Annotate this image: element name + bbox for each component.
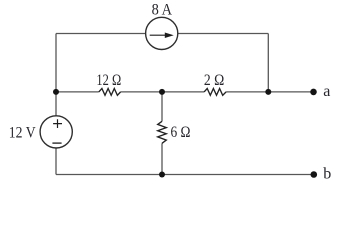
svg-text:a: a <box>323 83 330 100</box>
node junction left (middle rail / left riser) <box>53 89 59 95</box>
voltage source V1 circle <box>40 116 72 148</box>
wire middle rail: left node to 12-ohm resistor <box>56 91 99 93</box>
wire left vertical riser x=56 (top rail to 12V source) <box>55 34 57 116</box>
voltage source plus sign <box>53 119 62 128</box>
svg-text:12 V: 12 V <box>9 124 37 141</box>
svg-text:2 Ω: 2 Ω <box>204 72 224 89</box>
wire top rail left segment to current source <box>56 33 145 35</box>
node junction right (middle rail / right drop) <box>265 89 271 95</box>
resistor R3 6 ohm vertical zigzag <box>158 121 167 143</box>
wire right vertical drop x=268.3 (top rail to middle rail) <box>267 34 269 92</box>
node junction bottom (bottom rail / 6 ohm) <box>159 172 165 178</box>
svg-text:8 A: 8 A <box>152 2 173 19</box>
svg-text:b: b <box>323 166 331 183</box>
current source arrow (points right) <box>150 34 167 36</box>
resistor R2 2 ohm horizontal zigzag <box>204 89 226 96</box>
wire bottom rail to terminal b <box>56 174 314 176</box>
wire middle rail: 2-ohm to right node and terminal a <box>226 91 313 93</box>
svg-text:6 Ω: 6 Ω <box>171 124 191 141</box>
svg-text:12 Ω: 12 Ω <box>96 72 121 89</box>
terminal b dot <box>311 171 318 178</box>
wire bottom-left vertical: 12V source to bottom rail <box>55 148 57 174</box>
node junction centre (middle rail / 6 ohm) <box>159 89 165 95</box>
current source I1 circle <box>146 17 178 49</box>
wire centre vertical: middle rail node down to 6-ohm <box>161 92 163 121</box>
wire top rail right segment from current source <box>178 33 268 35</box>
resistor R1 12 ohm horizontal zigzag <box>99 89 121 96</box>
wire middle rail: 12-ohm to 2-ohm through centre node <box>121 91 205 93</box>
terminal a dot <box>310 89 317 96</box>
wire centre vertical: 6-ohm down to bottom rail <box>161 143 163 174</box>
voltage source minus sign <box>52 142 61 144</box>
